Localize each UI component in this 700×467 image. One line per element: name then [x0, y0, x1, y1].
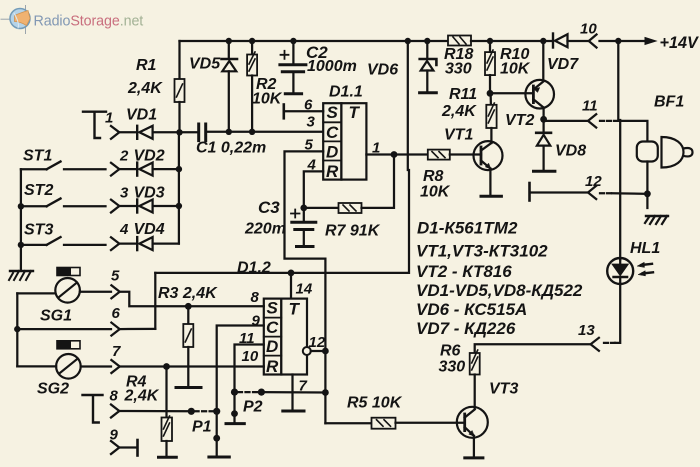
svg-text:VD4: VD4 — [134, 221, 165, 238]
wire D1.2 pin 14 riser — [290, 273, 292, 299]
resistor R18 (330) in series on rail — [448, 36, 471, 46]
svg-text:ST1: ST1 — [23, 148, 52, 165]
diode VD2 — [137, 163, 152, 176]
wire HL1 feed vertical from rail — [618, 41, 620, 260]
svg-text:6: 6 — [112, 305, 121, 322]
wire D1.2 pin 8 S input — [155, 305, 263, 307]
wire R8 to VT1 base — [450, 153, 481, 155]
node junction rail at VT2 emitter — [540, 38, 546, 44]
svg-text:2,4K: 2,4K — [124, 388, 160, 405]
wire R7 to pin 1 node — [362, 155, 395, 208]
diode VD3 — [137, 200, 152, 213]
wire VT2 collector to node — [542, 108, 544, 120]
sensor SG2 magnet bar — [57, 341, 80, 349]
svg-text:3: 3 — [120, 185, 129, 202]
svg-text:3: 3 — [307, 114, 316, 131]
wire SG1 right lead to contact 5 — [80, 291, 111, 293]
wire VT1 emitter to ground — [489, 169, 491, 196]
svg-text:5: 5 — [305, 137, 314, 154]
node junction ST3 on bus — [18, 242, 24, 248]
node junction VD2 bus — [176, 166, 182, 172]
resistor R2 (10K) branch from rail — [251, 41, 253, 55]
svg-text:SG2: SG2 — [37, 381, 69, 398]
ground bar C2 — [285, 92, 301, 95]
svg-text:12: 12 — [585, 173, 602, 190]
ground bar VT3 emitter — [465, 456, 483, 459]
wire contact 4 to VD4 — [119, 242, 137, 244]
wire stub to contact 12 — [531, 191, 588, 193]
svg-text:R: R — [326, 162, 339, 181]
svg-text:D1-К561ТМ2: D1-К561ТМ2 — [417, 219, 518, 238]
node junction lower on pin 9 riser — [213, 435, 220, 442]
wire supply riser to contact 6 — [154, 273, 156, 329]
HL1 emission arrows — [637, 262, 653, 276]
contact pin 11 chevron — [588, 114, 596, 127]
resistor R7 (91K) horizontal — [339, 203, 362, 213]
diode VD1 (cathode bar left) — [137, 126, 152, 139]
svg-text:R8: R8 — [423, 168, 444, 185]
wire node to R7 — [304, 207, 339, 209]
svg-text:RadioStorage.net: RadioStorage.net — [34, 14, 144, 30]
node junction rail at R10 — [487, 38, 493, 44]
wire pin 6 stub to S — [285, 110, 323, 112]
svg-text:220m: 220m — [244, 221, 286, 238]
wire SG2 left lead — [17, 365, 56, 367]
svg-text:VT3: VT3 — [489, 381, 518, 398]
wire R6 to VT3 collector — [474, 375, 476, 409]
wire VD7 to contact 10 — [568, 40, 589, 42]
svg-text:HL1: HL1 — [630, 240, 660, 257]
wire R11 to VT1 collector — [490, 128, 492, 143]
svg-text:9: 9 — [110, 427, 119, 444]
svg-text:VD7 - КД226: VD7 - КД226 — [416, 319, 516, 338]
svg-text:13: 13 — [578, 322, 595, 339]
node junction VD5 bottom — [226, 129, 232, 135]
resistor R3 (2,4K) vertical — [183, 306, 193, 386]
wire contact 13 to R6 — [475, 344, 591, 353]
node junction rail at C2 — [290, 38, 296, 44]
svg-text:ST3: ST3 — [24, 222, 53, 239]
svg-text:12: 12 — [309, 334, 326, 351]
wire ST2 to contact 3 — [64, 205, 106, 207]
contact pin 10 chevron — [589, 35, 597, 48]
svg-text:R5 10K: R5 10K — [347, 395, 403, 412]
svg-text:4: 4 — [307, 157, 317, 174]
transistor VT3 (KT3102 npn) — [457, 407, 488, 438]
svg-text:VD7: VD7 — [547, 56, 579, 73]
ground bar VT1 emitter — [481, 195, 501, 198]
resistor R8 (10K) horizontal — [428, 150, 450, 160]
svg-text:VT1,VT3-КТ3102: VT1,VT3-КТ3102 — [416, 242, 548, 261]
ground chassis symbol left bus — [9, 271, 33, 280]
ST2 blade — [47, 199, 61, 207]
svg-text:VD1: VD1 — [126, 107, 157, 124]
diode VD4 — [137, 237, 152, 250]
IC D1.2 main box — [281, 299, 307, 375]
svg-text:S: S — [327, 103, 339, 122]
svg-text:T: T — [349, 103, 361, 122]
resistor R11 (2,4K) vertical — [486, 93, 496, 128]
svg-text:R: R — [266, 357, 279, 376]
svg-text:ST2: ST2 — [24, 182, 53, 199]
wire contact 6 left lead — [17, 328, 111, 330]
contact pin 13 chevron — [591, 338, 599, 351]
svg-text:9: 9 — [252, 313, 261, 330]
resistor R1 (2.4K) vertical — [175, 79, 185, 102]
svg-text:P1: P1 — [192, 419, 212, 436]
svg-text:VD2: VD2 — [134, 148, 165, 165]
svg-text:VD3: VD3 — [134, 185, 165, 202]
svg-text:VT2: VT2 — [505, 112, 534, 129]
D1.1 pin 6 stub terminal bar — [282, 105, 285, 119]
ST3 blade — [47, 237, 61, 245]
contact 9 stub terminal bar — [136, 440, 139, 456]
wire node to VT2 base — [490, 92, 533, 94]
contact 12 stub terminal bar — [528, 183, 531, 201]
wire VD1 to node bus — [153, 131, 197, 133]
IC D1.1 main box — [341, 103, 366, 179]
wire BF1 bottom lead — [646, 162, 648, 209]
svg-text:10K: 10K — [252, 91, 283, 108]
node junction R2 bottom — [249, 129, 255, 135]
wire contact 12 to BF1 node — [600, 192, 612, 194]
wire contact 11 to BF1 (dash then solid) — [600, 120, 614, 122]
node junction on rail at HL1 branch — [615, 38, 621, 44]
svg-text:330: 330 — [439, 359, 466, 376]
ground chassis symbol BF1 — [644, 210, 668, 225]
node junction rail at VD6 — [424, 38, 430, 44]
ground bar D1.2 pin 7 — [283, 410, 304, 413]
node junction lower on pin 11 riser — [231, 410, 238, 417]
LED HL1 — [607, 258, 633, 284]
ground bar pin 9 riser — [209, 456, 229, 459]
svg-text:7: 7 — [112, 343, 121, 360]
svg-text:2: 2 — [119, 148, 129, 165]
svg-text:R3 2,4K: R3 2,4K — [158, 285, 218, 302]
capacitor C3 (220m) electrolytic — [292, 208, 316, 246]
svg-text:5: 5 — [111, 268, 120, 285]
node junction D1.2 pin 14 on supply net — [288, 270, 295, 277]
node junction rail at D1.2 supply riser — [405, 38, 411, 44]
wire rail mid segment — [471, 40, 553, 42]
D1.2 pin 12 inversion bubble — [303, 347, 311, 355]
contact pin 6 chevron — [111, 323, 119, 336]
D1.1 cell dividers — [323, 122, 341, 160]
diode VD7 (cathode bar left, triangle pointing left) — [553, 34, 568, 48]
node junction R7/C3/pin4 — [300, 205, 307, 212]
svg-text:1: 1 — [105, 110, 113, 127]
svg-text:8: 8 — [251, 289, 260, 306]
wire D1.2 pin 10 R input from contact 7 — [119, 365, 263, 367]
contact pin 8 chevron — [111, 405, 119, 418]
node junction ST2 on bus — [18, 203, 24, 209]
svg-text:7: 7 — [299, 378, 308, 395]
svg-text:10K: 10K — [500, 61, 531, 78]
wire VD4 to bus — [153, 242, 179, 244]
wire SG1 left lead — [17, 292, 55, 294]
IC D1.2 letter column box — [264, 299, 282, 375]
resistor R6 (330) vertical — [470, 350, 480, 375]
svg-text:R1: R1 — [136, 57, 157, 74]
svg-text:2,4K: 2,4K — [127, 80, 163, 97]
pushbutton P1 dots and dashed link — [188, 408, 195, 415]
svg-text:2,4K: 2,4K — [441, 103, 477, 120]
svg-text:VD6: VD6 — [367, 62, 398, 79]
svg-text:6: 6 — [304, 97, 313, 114]
ST1 blade — [47, 162, 61, 170]
wire P2 to pin 12 node — [261, 391, 325, 394]
svg-text:VD5: VD5 — [189, 56, 221, 73]
+14V arrow head — [645, 38, 656, 45]
svg-text:C1 0,22m: C1 0,22m — [196, 140, 266, 157]
wire ST3 to contact 4 — [64, 244, 106, 246]
wire +14V top rail left segment — [180, 40, 449, 42]
svg-text:T: T — [289, 300, 301, 319]
wire D1.2 pin 9 C input — [217, 326, 264, 456]
svg-text:VD1-VD5,VD8-КД522: VD1-VD5,VD8-КД522 — [416, 281, 583, 300]
wire SG bus left vertical — [16, 293, 18, 366]
diode VD5 branch wire from rail — [228, 41, 230, 58]
ground bar pin 11 riser — [226, 422, 244, 425]
wire node to contact 11 — [544, 120, 588, 122]
node junction R10/R11/VT2 base — [487, 90, 494, 97]
svg-text:D1.1: D1.1 — [329, 84, 363, 101]
wire ST left bus vertical — [20, 169, 22, 269]
svg-text:330: 330 — [445, 61, 472, 78]
wire D1.1 pin 1 output — [366, 153, 427, 155]
sensor SG1 magnet bar — [57, 268, 80, 276]
node junction contact 6 tap on SG bus — [14, 326, 20, 332]
node junction rail at R2 — [249, 38, 255, 44]
sensor SG1 circle with slash — [55, 278, 80, 303]
wire contact 9 to stub — [119, 446, 137, 448]
wire R5 to VT3 base — [396, 422, 465, 424]
ground bar C3 — [297, 245, 314, 248]
node junction R1/VD1 bus — [176, 129, 182, 135]
wire contact 8 to P1 — [119, 410, 191, 413]
ground bar VD6 — [420, 91, 437, 94]
svg-text:R7 91K: R7 91K — [325, 223, 381, 240]
probe jack symbol at contact 1 — [83, 112, 106, 138]
probe jack symbol at contact 8 — [83, 395, 103, 423]
C2 plus sign — [281, 51, 289, 59]
wire pin 4 R input — [304, 171, 323, 208]
svg-text:VT2 - КТ816: VT2 - КТ816 — [416, 262, 512, 281]
transistor VT1 (KT3102 npn) — [474, 141, 503, 170]
svg-text:8: 8 — [110, 388, 119, 405]
svg-text:VT1: VT1 — [444, 127, 473, 144]
wire VD3 to bus — [153, 205, 179, 207]
svg-text:11: 11 — [582, 98, 598, 115]
switch ST3 wire — [21, 244, 47, 246]
svg-text:S: S — [267, 299, 279, 318]
sensor SG2 circle with slash — [56, 354, 81, 379]
wire contact 2 to VD2 — [119, 168, 137, 170]
wire contact 3 to VD3 — [119, 205, 137, 207]
wire HL1 to contact 13 — [615, 284, 620, 343]
node junction R4 top — [163, 363, 170, 370]
node junction VD3 bus — [176, 203, 182, 209]
wire VD2 to bus — [153, 168, 179, 170]
contact pin 9 chevron — [111, 441, 119, 454]
wire diode cathode bus vertical — [178, 132, 180, 243]
contact pin 5 chevron — [111, 285, 119, 298]
svg-text:1000m: 1000m — [307, 58, 357, 75]
ground bar VD8 — [534, 170, 555, 173]
svg-text:D: D — [326, 143, 338, 162]
sounder BF1 capsule body — [637, 142, 658, 162]
svg-text:14: 14 — [296, 281, 313, 298]
logo RadioStorage.net globe icon — [1, 6, 30, 34]
transistor VT2 (KT816 pnp) — [525, 80, 554, 109]
diode VD8 (cathode down) — [536, 119, 551, 170]
wire contact 5 to S net — [120, 292, 156, 307]
contact pin 1 chevron — [111, 126, 119, 139]
D1.2 cell dividers — [264, 318, 282, 356]
wire SG2 right lead to contact 7 — [81, 365, 111, 367]
ground bar R4 — [159, 456, 177, 459]
contact pin 7 chevron — [111, 360, 119, 373]
svg-text:+14V: +14V — [660, 34, 699, 52]
wire VT3 emitter to ground — [473, 436, 475, 457]
C3 plus sign — [291, 210, 300, 218]
resistor R10 (10K) vertical — [485, 41, 495, 93]
svg-text:R6: R6 — [440, 343, 461, 360]
diode VD5 (cathode top) — [222, 59, 238, 132]
svg-text:D: D — [266, 337, 278, 356]
contact pin 3 chevron — [111, 200, 119, 213]
logo text RadioStorage.net — [34, 14, 144, 30]
svg-text:BF1: BF1 — [654, 94, 684, 111]
capacitor C2 (1000m) electrolytic from rail — [292, 41, 294, 63]
svg-text:10: 10 — [580, 21, 597, 38]
svg-text:1: 1 — [372, 140, 380, 157]
svg-text:D1.2: D1.2 — [237, 260, 271, 277]
contact pin 4 chevron — [111, 237, 119, 250]
wire VT2 emitter to rail — [542, 41, 544, 81]
wire D1.2 output corner to R5 — [325, 422, 371, 424]
svg-text:C3: C3 — [258, 198, 280, 217]
svg-text:4: 4 — [119, 221, 129, 238]
wire contact 1 to VD1 — [119, 131, 137, 133]
ground bar R3 — [176, 386, 201, 389]
node junction BF1/contact 12 wire — [644, 190, 651, 197]
wire pin 5 D input from below — [285, 151, 326, 423]
capacitor C1 (0,22m) — [199, 124, 206, 141]
svg-text:SG1: SG1 — [40, 308, 72, 325]
wire contact 6 to supply riser — [120, 328, 156, 330]
wire R1 bottom to input node — [178, 102, 180, 132]
IC D1.1 letter column box — [323, 103, 341, 179]
wire ST1 to contact 2 — [64, 168, 106, 170]
svg-text:C: C — [326, 123, 339, 142]
node junction P2 wire on output riser — [322, 389, 329, 396]
svg-text:VD8: VD8 — [555, 143, 586, 160]
node junction pin1/R7 — [391, 151, 398, 158]
BF1 horn bell — [662, 137, 693, 168]
svg-text:P2: P2 — [243, 399, 263, 416]
resistor R4 (2,4K) vertical from contact 7 wire — [162, 367, 173, 456]
switch ST2 wire — [21, 205, 47, 207]
svg-text:VD6 - КС515А: VD6 - КС515А — [416, 300, 527, 319]
node junction VT2 collector/VD8/contact 11 — [540, 116, 547, 123]
switch ST1 and left bus wire — [21, 168, 47, 170]
node junction rail at VD5 — [226, 38, 232, 44]
svg-text:C: C — [266, 318, 279, 337]
svg-text:R11: R11 — [449, 86, 477, 103]
diode VD6 zener (KC515A) from rail — [420, 41, 437, 92]
contact pin 2 chevron — [111, 163, 119, 176]
node junction pin 12 output — [322, 348, 329, 355]
wire pin 12 to output node — [311, 350, 326, 352]
resistor R5 (10K) horizontal — [372, 418, 396, 429]
svg-text:11: 11 — [239, 330, 255, 347]
wire supply riser rail to D1.2 pin 14 net — [155, 41, 409, 273]
wire D1.2 pin 7 to ground — [291, 375, 293, 410]
wire contact 10 to +14V arrow — [600, 40, 652, 42]
contact pin 12 chevron — [588, 186, 596, 199]
svg-text:10: 10 — [242, 348, 259, 365]
wire D1.2 pin 11 D input — [235, 345, 264, 423]
wire R1 branch from rail — [178, 41, 180, 79]
pushbutton P2 dots and dashed link — [231, 389, 238, 396]
wire C1 to D1.1 pin 3 — [206, 131, 324, 133]
svg-text:10K: 10K — [420, 184, 451, 201]
node junction R3 top — [185, 303, 192, 310]
